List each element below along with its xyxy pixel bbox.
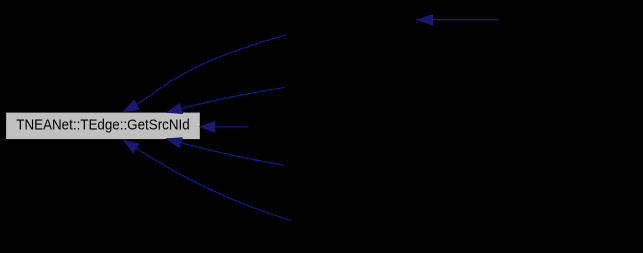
edge E2 arrowhead — [167, 103, 182, 113]
edge E0 arrowhead — [418, 14, 433, 25]
edge E5 wire (bottom caller curve) — [124, 140, 292, 220]
edge E3 wire (horizontal caller) — [214, 126, 249, 128]
edge E1 wire (top caller curve) — [124, 35, 286, 112]
edge E5 arrowhead — [124, 140, 139, 152]
edge E4 wire (fourth caller curve) — [167, 139, 285, 165]
edge E1 arrowhead — [124, 100, 139, 112]
edge E4 arrowhead — [167, 138, 182, 148]
edge E3 arrowhead — [200, 122, 215, 133]
edge E2 wire (second caller curve) — [167, 88, 285, 113]
node box: TNEANet::TEdge::GetSrcNId (grey central node) — [6, 112, 201, 140]
svg-text:TNEANet::TEdge::GetSrcNId: TNEANet::TEdge::GetSrcNId — [16, 118, 189, 134]
edge E0 wire (top-right horizontal) — [432, 19, 500, 21]
